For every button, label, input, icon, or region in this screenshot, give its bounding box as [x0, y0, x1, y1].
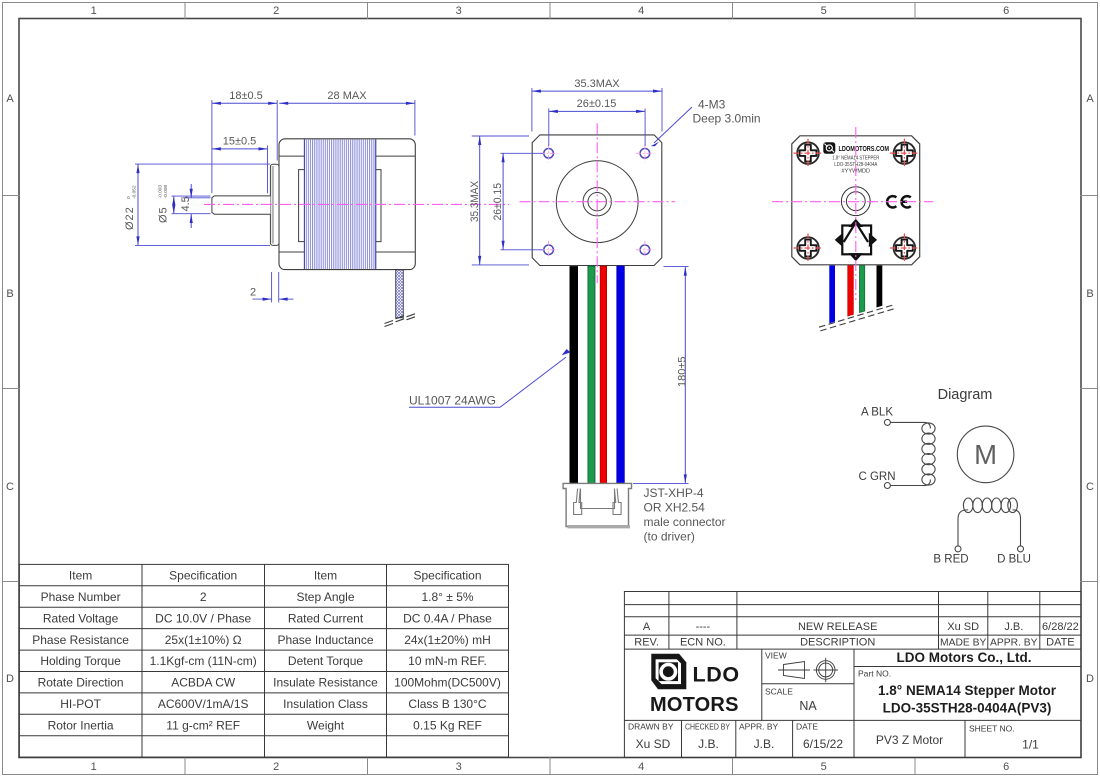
svg-text:UL1007 24AWG: UL1007 24AWG: [409, 394, 496, 408]
svg-text:J.B.: J.B.: [698, 737, 719, 751]
rear centerline horizontal: [772, 201, 933, 203]
svg-text:(to driver): (to driver): [644, 530, 695, 544]
wire B leg: [958, 510, 968, 546]
mounting hole TL: [540, 144, 558, 162]
svg-text:Holding Torque: Holding Torque: [40, 654, 121, 668]
wire A to coil: [890, 422, 930, 428]
wire coil to C: [890, 480, 930, 486]
svg-text:1: 1: [91, 761, 97, 773]
svg-text:26±0.15: 26±0.15: [492, 183, 504, 221]
svg-text:Phase Number: Phase Number: [41, 590, 121, 604]
dim Ø22: [135, 164, 270, 245]
svg-text:28 MAX: 28 MAX: [327, 90, 367, 102]
svg-text:10 mN-m REF.: 10 mN-m REF.: [408, 654, 487, 668]
dim 26±0.15 left: [501, 153, 544, 250]
bottom margin column ticks: [185, 758, 915, 775]
svg-text:J.B.: J.B.: [754, 737, 775, 751]
svg-text:24x(1±20%) mH: 24x(1±20%) mH: [404, 633, 491, 647]
svg-text:REV.: REV.: [634, 637, 659, 649]
terminal A: [884, 419, 890, 425]
CE mark: [887, 196, 911, 207]
svg-text:ACBDA CW: ACBDA CW: [171, 676, 236, 690]
shaft: [212, 196, 271, 214]
svg-text:Xu SD: Xu SD: [947, 621, 979, 633]
svg-text:Phase Inductance: Phase Inductance: [277, 633, 373, 647]
mounting hole BL: [540, 241, 558, 259]
spec table text: [32, 569, 501, 733]
motor body outline: [279, 139, 415, 270]
rear plate: [792, 136, 920, 265]
svg-text:4.5: 4.5: [180, 196, 192, 211]
title block grid: [624, 592, 1081, 758]
svg-text:JST-XHP-4: JST-XHP-4: [644, 486, 704, 500]
svg-text:NA: NA: [799, 699, 817, 713]
svg-text:C: C: [6, 481, 14, 493]
svg-text:MOTORS: MOTORS: [650, 694, 739, 716]
rear bearing rings: [841, 187, 870, 216]
svg-text:A BLK: A BLK: [861, 407, 893, 419]
svg-text:2: 2: [273, 761, 279, 773]
svg-text:6: 6: [1003, 761, 1009, 773]
wire pigtail hatched: [396, 270, 404, 318]
svg-text:5: 5: [821, 5, 827, 17]
svg-text:1: 1: [91, 5, 97, 17]
screw BR: [890, 234, 919, 263]
svg-text:MADE BY: MADE BY: [940, 638, 986, 649]
LDO logo mark: [651, 654, 686, 690]
screw TR: [890, 139, 919, 168]
side view centerline: [204, 203, 509, 205]
svg-text:Specification: Specification: [413, 569, 481, 583]
pilot circle: [556, 161, 638, 243]
svg-text:3: 3: [456, 761, 462, 773]
svg-text:ECN NO.: ECN NO.: [680, 637, 726, 649]
svg-text:1.8° NEMA14 Stepper Motor: 1.8° NEMA14 Stepper Motor: [878, 683, 1057, 698]
svg-text:Part NO.: Part NO.: [858, 669, 891, 679]
connector body: [563, 483, 631, 526]
svg-text:6: 6: [1003, 5, 1009, 17]
svg-text:100Mohm(DC500V): 100Mohm(DC500V): [394, 676, 501, 690]
coil B-D: [963, 498, 1017, 513]
svg-text:M: M: [974, 439, 997, 470]
svg-text:DATE: DATE: [1046, 637, 1075, 649]
svg-text:HI-POT: HI-POT: [60, 697, 101, 711]
svg-text:DC 10.0V / Phase: DC 10.0V / Phase: [155, 611, 251, 625]
svg-text:Diagram: Diagram: [938, 387, 993, 403]
svg-text:LDO-35STH28-0404A(PV3): LDO-35STH28-0404A(PV3): [883, 701, 1052, 716]
dim 26±0.15 top: [549, 109, 645, 147]
dim 2: [253, 272, 294, 303]
svg-text:26±0.15: 26±0.15: [577, 98, 617, 110]
rear wire red: [848, 266, 854, 317]
svg-text:-0.003: -0.003: [158, 185, 164, 199]
dim 15±0.5: [212, 146, 268, 194]
mounting hole TR: [636, 144, 654, 162]
svg-text:DESCRIPTION: DESCRIPTION: [800, 637, 875, 649]
svg-text:Class B 130°C: Class B 130°C: [408, 697, 486, 711]
motor M circle: [957, 426, 1014, 483]
svg-text:DC 0.4A / Phase: DC 0.4A / Phase: [403, 611, 492, 625]
right margin row ticks: [1081, 196, 1098, 582]
mounting hole BR: [636, 241, 654, 259]
svg-text:CHECKED BY: CHECKED BY: [685, 722, 730, 732]
svg-text:APPR. BY: APPR. BY: [990, 638, 1038, 649]
svg-text:Insulate Resistance: Insulate Resistance: [273, 676, 378, 690]
svg-text:1.8° ± 5%: 1.8° ± 5%: [421, 590, 473, 604]
note 4-M3 leader: [651, 107, 692, 146]
svg-text:Rated Current: Rated Current: [288, 611, 364, 625]
svg-text:4: 4: [638, 761, 644, 773]
svg-text:-0.008: -0.008: [163, 185, 169, 199]
svg-text:Insulation Class: Insulation Class: [283, 697, 368, 711]
svg-text:5: 5: [821, 761, 827, 773]
svg-text:6/28/22: 6/28/22: [1042, 621, 1079, 633]
svg-text:18±0.5: 18±0.5: [229, 90, 263, 102]
label small text lines: [832, 156, 879, 175]
coil A-C: [922, 423, 935, 485]
boss shading: [272, 166, 274, 244]
svg-text:SCALE: SCALE: [765, 687, 793, 697]
note UL1007 24AWG leader: [409, 349, 570, 407]
svg-text:4-M3: 4-M3: [698, 98, 726, 112]
svg-text:B RED: B RED: [933, 554, 968, 566]
dim 18±0.5: [212, 100, 277, 193]
svg-text:Step Angle: Step Angle: [296, 590, 354, 604]
svg-text:35.3MAX: 35.3MAX: [574, 78, 620, 90]
svg-text:6/15/22: 6/15/22: [803, 737, 843, 751]
svg-text:3: 3: [456, 5, 462, 17]
terminal D: [1018, 546, 1024, 552]
svg-text:A: A: [1086, 93, 1094, 105]
svg-text:LDO Motors Co., Ltd.: LDO Motors Co., Ltd.: [897, 650, 1032, 665]
svg-text:15±0.5: 15±0.5: [223, 136, 257, 148]
svg-text:2: 2: [250, 287, 256, 299]
svg-text:D: D: [1086, 673, 1094, 685]
svg-text:D BLU: D BLU: [997, 554, 1031, 566]
dim 28 MAX: [279, 100, 415, 136]
stator step right: [376, 170, 381, 242]
svg-text:4: 4: [638, 5, 644, 17]
wire D leg: [1013, 510, 1021, 546]
svg-text:A: A: [643, 621, 651, 633]
svg-text:----: ----: [696, 621, 711, 633]
wire red: [600, 266, 606, 483]
lamination stack edges: [303, 139, 305, 269]
svg-text:LDOMOTORS.COM: LDOMOTORS.COM: [839, 144, 890, 153]
svg-text:OR XH2.54: OR XH2.54: [644, 501, 706, 515]
terminal C: [884, 483, 890, 489]
svg-text:B: B: [6, 288, 13, 300]
pilot boss: [270, 164, 279, 245]
svg-text:NEW RELEASE: NEW RELEASE: [798, 621, 877, 633]
screw BL: [794, 234, 823, 263]
svg-text:VIEW: VIEW: [765, 651, 787, 661]
top margin column ticks: [185, 3, 915, 19]
svg-text:A: A: [6, 93, 14, 105]
svg-text:Ø22: Ø22: [124, 206, 136, 230]
svg-text:Detent Torque: Detent Torque: [288, 654, 363, 668]
terminal B: [955, 546, 961, 552]
spec table grid: [19, 564, 508, 757]
view target symbol: [814, 658, 839, 682]
shaft circle: [588, 193, 606, 211]
svg-text:Specification: Specification: [169, 569, 237, 583]
svg-text:SHEET NO.: SHEET NO.: [969, 724, 1015, 734]
svg-text:Deep 3.0min: Deep 3.0min: [693, 112, 761, 126]
svg-text:-0.052: -0.052: [131, 185, 137, 199]
svg-text:APPR. BY: APPR. BY: [739, 722, 779, 732]
svg-text:35.3MAX: 35.3MAX: [469, 180, 481, 222]
svg-text:1.1Kgf-cm (11N-cm): 1.1Kgf-cm (11N-cm): [150, 654, 257, 668]
svg-text:PV3 Z Motor: PV3 Z Motor: [876, 733, 943, 747]
svg-text:J.B.: J.B.: [1004, 621, 1023, 633]
lamination stack: [304, 139, 375, 269]
rotation mark: [835, 219, 877, 261]
wire black: [570, 266, 579, 483]
dim Ø5: [172, 196, 211, 214]
svg-text:Rotor Inertia: Rotor Inertia: [48, 719, 114, 733]
svg-text:Item: Item: [69, 569, 92, 583]
front centerline vertical: [596, 123, 598, 283]
svg-text:B: B: [1086, 288, 1093, 300]
svg-text:AC600V/1mA/1S: AC600V/1mA/1S: [158, 697, 249, 711]
dim 35.3MAX top: [532, 88, 662, 132]
svg-text:DATE: DATE: [796, 722, 818, 732]
svg-text:Ø5: Ø5: [157, 206, 169, 223]
svg-text:0.15 Kg REF: 0.15 Kg REF: [413, 719, 482, 733]
svg-text:male connector: male connector: [644, 515, 726, 529]
end-cap flange line bottom: [279, 251, 415, 253]
rear break lines: [819, 305, 894, 331]
rear wire green: [859, 266, 864, 313]
svg-text:11 g-cm² REF: 11 g-cm² REF: [166, 719, 240, 733]
rear wire blue: [829, 266, 835, 324]
bearing boss circle: [583, 188, 611, 216]
screw TL: [794, 139, 823, 168]
left margin row ticks: [3, 196, 20, 582]
svg-text:Phase Resistance: Phase Resistance: [32, 633, 129, 647]
dim 180±5: [633, 267, 689, 484]
svg-text:180±5: 180±5: [677, 356, 689, 387]
stator step left: [299, 170, 305, 242]
svg-text:Item: Item: [314, 569, 337, 583]
svg-text:D: D: [6, 673, 14, 685]
rear wire black: [877, 266, 883, 308]
front centerline horizontal: [520, 201, 676, 203]
front face plate: [532, 135, 662, 266]
dim 35.3MAX left: [472, 136, 529, 265]
svg-text:Weight: Weight: [307, 719, 345, 733]
svg-text:DRAWN BY: DRAWN BY: [628, 722, 674, 732]
svg-text:Rotate Direction: Rotate Direction: [38, 676, 124, 690]
revision table text: [634, 621, 1078, 649]
svg-text:C: C: [1086, 481, 1094, 493]
svg-text:25x(1±10%) Ω: 25x(1±10%) Ω: [165, 633, 242, 647]
svg-text:LDO: LDO: [693, 663, 740, 687]
connector base shadow: [568, 525, 631, 528]
rear centerline vertical: [855, 127, 857, 300]
svg-text:C GRN: C GRN: [858, 471, 895, 483]
svg-text:2: 2: [200, 590, 207, 604]
svg-text:Xu SD: Xu SD: [636, 737, 671, 751]
wire green: [588, 266, 595, 483]
wire blue: [617, 266, 625, 483]
svg-text:2: 2: [273, 5, 279, 17]
svg-text:Rated Voltage: Rated Voltage: [43, 611, 119, 625]
svg-text:0: 0: [126, 196, 132, 199]
pigtail break marks: [385, 314, 416, 327]
end-cap flange line top: [279, 155, 415, 157]
view cone symbol: [778, 662, 810, 679]
svg-text:1/1: 1/1: [1022, 738, 1039, 752]
label logo mark: [823, 142, 835, 153]
dim 4.5: [183, 184, 211, 228]
